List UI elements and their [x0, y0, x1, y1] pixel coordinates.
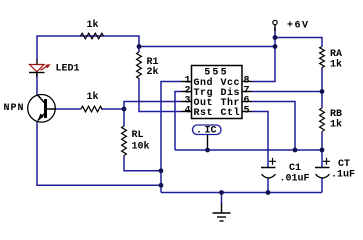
resistor 1k top: [81, 33, 104, 39]
junction RB-CT node: [320, 148, 325, 153]
wire +6V terminal down to Vcc pin 8: [252, 28, 275, 82]
ground: [213, 203, 231, 221]
wire base run: [55, 108, 124, 110]
svg-text:RA: RA: [330, 49, 342, 60]
junction +6V RA branch: [273, 35, 278, 40]
svg-text:+6V: +6V: [287, 21, 310, 32]
transistor Q1: [28, 95, 56, 123]
wire RA bottom to Dis junction: [321, 68, 323, 92]
resistor RB: [320, 108, 325, 132]
wire Thr pin 6: [252, 102, 295, 151]
wire CT bottom lead: [321, 179, 323, 193]
junction +6V rail: [273, 44, 278, 49]
svg-text:1k: 1k: [87, 19, 99, 31]
wire LED anode lead: [36, 74, 38, 97]
wire emitter run: [37, 121, 161, 185]
resistor RA: [320, 47, 325, 68]
resistor 1k base: [81, 106, 102, 112]
wire RB bottom lead: [321, 132, 323, 151]
junction ground stem: [219, 190, 224, 195]
svg-text:Ctl: Ctl: [220, 107, 240, 119]
wire ground rail: [161, 192, 322, 194]
wire .IC stem: [207, 135, 209, 151]
wire Gnd pin 1 down: [161, 82, 181, 193]
wire RA branch: [275, 38, 322, 47]
svg-text:1k: 1k: [330, 59, 342, 71]
IC U1 555 box: [192, 66, 243, 119]
svg-text:4: 4: [184, 106, 190, 117]
capacitor CT: [315, 158, 330, 178]
wire Trg pin 2: [175, 92, 181, 151]
power terminal +6V: [273, 20, 277, 31]
wire RB top lead: [321, 92, 323, 109]
svg-text:CT: CT: [338, 159, 350, 170]
junction .IC stem: [205, 148, 210, 153]
svg-text:LED1: LED1: [56, 64, 80, 75]
svg-text:1k: 1k: [330, 119, 342, 131]
svg-text:RL: RL: [132, 130, 144, 141]
svg-text:2k: 2k: [147, 66, 159, 78]
wire Ctl pin 5 to C1: [252, 112, 268, 168]
wire ground stem: [221, 193, 223, 204]
svg-text:10k: 10k: [132, 141, 150, 153]
wire +6V rail y=47: [139, 46, 275, 48]
pin stubs right: [242, 82, 252, 112]
svg-text:5: 5: [244, 106, 250, 117]
wire Dis pin 7 run: [252, 91, 322, 93]
svg-text:Rst: Rst: [194, 108, 214, 119]
svg-text:.1uF: .1uF: [331, 170, 355, 181]
svg-text:C1: C1: [289, 163, 301, 174]
LED D1: [29, 59, 51, 77]
wire top run anode to R1 top: [37, 36, 139, 59]
svg-text:NPN: NPN: [4, 103, 25, 114]
svg-text:1k: 1k: [87, 91, 99, 103]
.IC marker: [193, 125, 222, 137]
junction R1 top: [137, 44, 142, 49]
wire Out pin 3: [124, 102, 181, 127]
wire Rst pin 4 to R1 bottom: [139, 79, 181, 112]
junction RL bottom: [159, 168, 164, 173]
resistor RL: [122, 126, 127, 156]
junction emitter rail: [159, 183, 164, 188]
svg-text:555: 555: [204, 68, 229, 79]
junction Dis node: [320, 89, 325, 94]
junction base node: [122, 107, 127, 112]
svg-text:IC: IC: [205, 126, 217, 137]
junction Thr node: [293, 148, 298, 153]
wire RL bottom run: [124, 156, 161, 171]
resistor R1: [137, 52, 142, 79]
wire R1 top lead: [138, 47, 140, 53]
capacitor C1: [261, 158, 276, 178]
svg-text:.: .: [196, 126, 202, 137]
wire Thr-Trg net y=150: [175, 149, 322, 151]
junction C1 bottom: [266, 190, 271, 195]
wire CT top lead: [321, 150, 323, 168]
svg-text:RB: RB: [330, 109, 342, 120]
svg-text:.01uF: .01uF: [280, 174, 310, 185]
pin stubs left: [181, 82, 192, 112]
wire C1 bottom lead: [267, 179, 269, 193]
